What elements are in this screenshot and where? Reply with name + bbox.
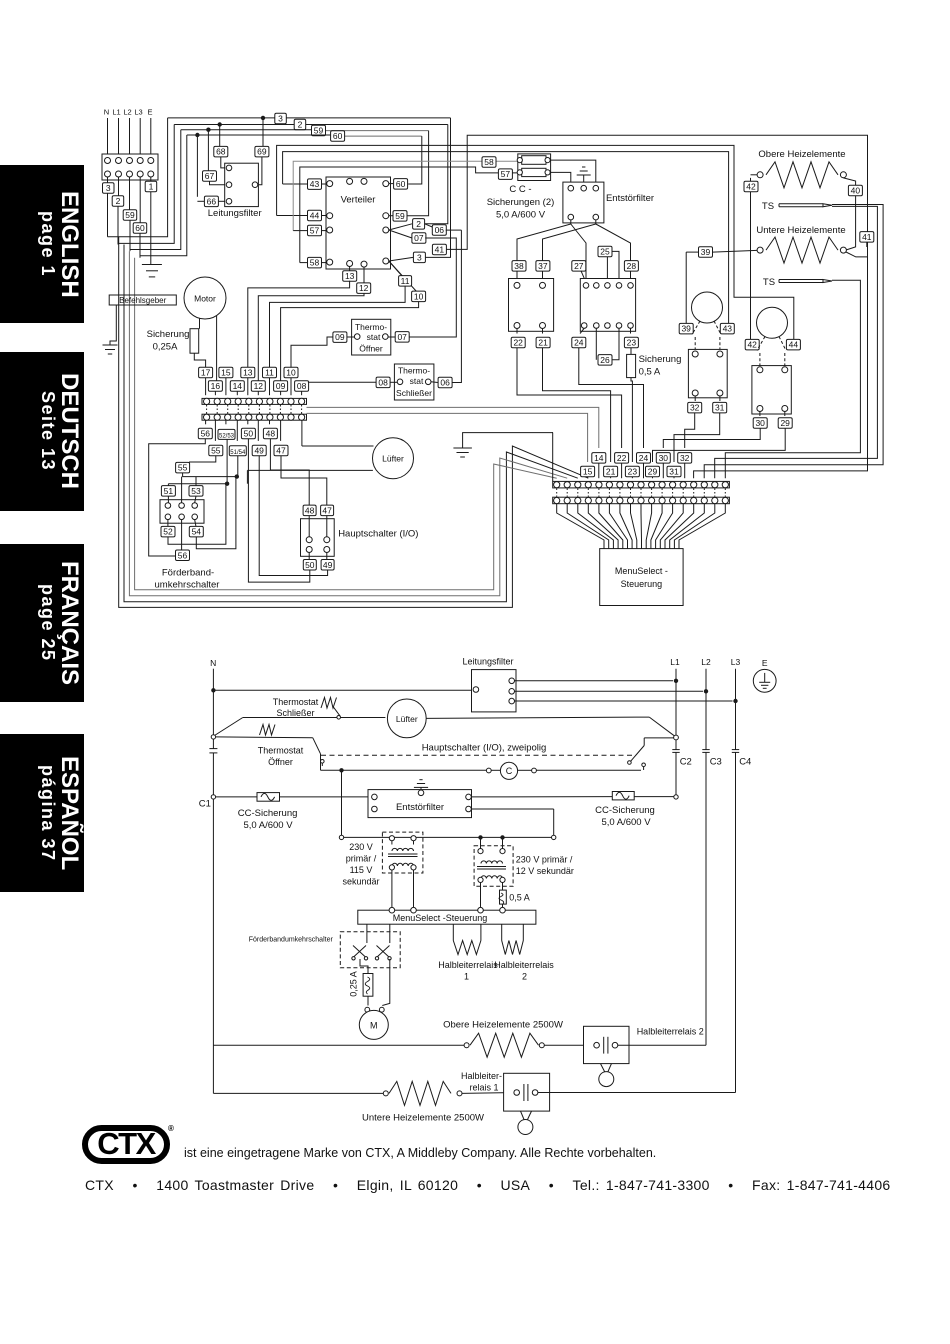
wire net07 to thermostat: [409, 238, 456, 337]
wire net43 bus: [283, 152, 729, 324]
CC fuse 1: [522, 156, 546, 165]
node 53 (box): [189, 486, 203, 497]
terminal block pins row 2: [105, 171, 111, 177]
svg-text:Obere Heizelemente: Obere Heizelemente: [758, 149, 845, 160]
terminal strip lower row 1: [553, 481, 730, 488]
address line: [85, 1177, 891, 1193]
relay REL2 pins: [757, 367, 763, 373]
svg-text:Untere Heizelemente: Untere Heizelemente: [756, 225, 845, 236]
svg-text:TS: TS: [763, 277, 775, 288]
svg-text:16: 16: [211, 381, 221, 391]
svg-text:59: 59: [125, 210, 135, 220]
node 11 strip (box): [263, 367, 277, 378]
wire net60 left loop: [139, 233, 141, 257]
wire fuse to strip 23: [631, 378, 632, 462]
svg-text:07: 07: [397, 332, 407, 342]
svg-text:1: 1: [464, 972, 469, 982]
node 52/53 (box): [218, 429, 235, 439]
thermostat closer contact: [243, 717, 337, 719]
node 55 second (box): [176, 462, 190, 473]
svg-text:C1: C1: [199, 799, 211, 810]
wire net42 drop: [750, 178, 752, 181]
svg-text:Entstörfilter: Entstörfilter: [396, 802, 444, 813]
wire SSR1 to L3: [538, 1092, 736, 1094]
svg-text:15: 15: [583, 467, 593, 477]
relay REL1 dashed links: [692, 321, 700, 335]
terminal strip lower row 2: [553, 497, 730, 504]
svg-text:primär /: primär /: [346, 854, 377, 864]
wire strip row2 stubs down: [205, 420, 207, 424]
thermostat opener (Oeffner) box: [352, 319, 391, 355]
svg-text:Befehlsgeber: Befehlsgeber: [119, 296, 166, 305]
terminal block X1: [102, 154, 158, 180]
Verteiler pins right: [383, 213, 389, 219]
distributor (Verteiler) box: [326, 177, 391, 269]
wire net59 drop to Verteiler 59: [408, 131, 429, 216]
node 59 right (box): [389, 215, 393, 217]
fuse Sicherung 0,25A: [190, 329, 199, 354]
motor M1 circle: [184, 277, 226, 319]
node 3 (box): [107, 177, 109, 183]
svg-text:27: 27: [574, 261, 584, 271]
dashed switch coupling (Hauptschalter zweipolig): [321, 754, 635, 756]
wire 40 down to junction: [846, 196, 856, 250]
wire net2 jog to top bus: [118, 125, 174, 244]
Verteiler pins top: [347, 178, 353, 184]
node 38 (box): [512, 261, 526, 272]
svg-text:23: 23: [628, 467, 638, 477]
svg-text:51/54: 51/54: [230, 450, 246, 456]
motor M circle: [359, 1010, 388, 1039]
svg-text:55: 55: [178, 463, 188, 473]
ground above Entstoerfilter bottom: [420, 787, 422, 790]
svg-text:C C -: C C -: [509, 184, 531, 195]
wire node67 drop: [207, 130, 209, 171]
wire 69 to filter pin: [258, 157, 262, 185]
wire 51 to pin: [167, 496, 169, 503]
bus N vertical: [212, 669, 214, 749]
svg-text:relais 1: relais 1: [469, 1083, 498, 1093]
svg-text:21: 21: [606, 467, 616, 477]
logo CTX: [82, 1125, 170, 1164]
node 60 (box): [139, 177, 141, 223]
svg-text:30: 30: [755, 418, 765, 428]
node 07 (box): [412, 233, 426, 244]
svg-text:60: 60: [333, 131, 343, 141]
Entstoerfilter pins bottom: [568, 214, 574, 220]
svg-text:2: 2: [416, 219, 421, 229]
node 48 (box): [263, 428, 277, 439]
svg-text:25: 25: [600, 246, 610, 256]
svg-text:22: 22: [617, 453, 627, 463]
svg-text:Motor: Motor: [194, 294, 216, 304]
wire node68 drop: [219, 125, 221, 147]
node 32 relay (box): [694, 396, 696, 401]
wire 55 to middle pin: [181, 477, 183, 503]
node 21 bottom (box): [604, 466, 618, 477]
svg-text:Hauptschalter (I/O), zweipolig: Hauptschalter (I/O), zweipolig: [422, 743, 547, 754]
terminal strip upper dotted links: [206, 405, 208, 414]
svg-text:30: 30: [659, 453, 669, 463]
node 48 HS (box): [303, 505, 316, 515]
svg-text:21: 21: [538, 338, 548, 348]
node 68 (box): [214, 146, 228, 157]
svg-text:0,5 A: 0,5 A: [639, 367, 661, 378]
svg-text:39: 39: [681, 324, 691, 334]
contactor K2 box: [580, 279, 635, 332]
svg-text:0,5 A: 0,5 A: [509, 893, 530, 903]
thermostat opener contact: [216, 736, 313, 739]
svg-text:60: 60: [135, 223, 145, 233]
svg-text:49: 49: [254, 446, 264, 456]
node 41 top (box): [432, 244, 446, 255]
junction dot N to line filter: [211, 688, 215, 692]
node 3 right (box): [413, 252, 425, 263]
node 14 (box): [230, 381, 244, 392]
wire obere left stub: [751, 174, 758, 176]
wire net58 bus: [300, 167, 520, 263]
svg-text:09: 09: [276, 381, 286, 391]
wire T2 secondary to controller: [480, 883, 482, 908]
svg-text:Thermostat: Thermostat: [273, 697, 319, 707]
svg-text:Sicherung: Sicherung: [639, 354, 682, 365]
node 55 (box): [209, 445, 223, 456]
wire untere right junction: [846, 252, 868, 257]
node 23 (box): [630, 328, 632, 333]
contactor K2 pins bottom: [581, 323, 587, 329]
svg-text:29: 29: [780, 418, 790, 428]
svg-text:stat: stat: [410, 376, 424, 386]
wire 53 stub: [195, 477, 197, 486]
svg-text:56: 56: [201, 429, 211, 439]
solid state relay 1 box: [504, 1073, 550, 1111]
svg-text:1: 1: [149, 182, 154, 192]
svg-text:48: 48: [266, 429, 276, 439]
bus L2 vertical: [705, 669, 707, 750]
wire N to untere heater: [213, 1092, 383, 1094]
node 57 fuse (box): [498, 169, 512, 180]
capacitor C4: [732, 749, 739, 751]
svg-text:Förderbandumkehrschalter: Förderbandumkehrschalter: [249, 937, 334, 944]
node 56 (box): [198, 428, 212, 439]
wire filter to contactor K2 b: [596, 224, 631, 283]
wire 06 link: [425, 224, 433, 227]
svg-text:42: 42: [747, 340, 757, 350]
svg-text:14: 14: [594, 453, 604, 463]
transformer T2 dashed box: [474, 846, 513, 887]
node 39 relay (box): [679, 323, 693, 334]
svg-text:Lüfter: Lüfter: [382, 454, 404, 464]
node 13 strip (box): [241, 367, 255, 378]
svg-text:06: 06: [435, 225, 445, 235]
wire net59 jog to top bus: [130, 130, 181, 250]
ground above Entstoerfilter: [583, 175, 585, 185]
ground below Befehlsgeber: [110, 305, 116, 345]
svg-text:42: 42: [746, 181, 756, 191]
svg-text:Sicherungen (2): Sicherungen (2): [487, 197, 555, 208]
bus L1 vertical: [675, 669, 677, 750]
wire net31 to strip: [674, 413, 720, 462]
node 10 strip (box): [284, 367, 298, 378]
node 06 (box): [432, 225, 446, 236]
tab DEUTSCH Seite 13: [0, 352, 84, 511]
wire net3 left loop: [107, 193, 109, 237]
wire net13 to strip: [248, 281, 350, 368]
svg-text:11: 11: [265, 368, 274, 378]
node 30 relay (box): [759, 412, 761, 416]
svg-text:stat: stat: [367, 332, 381, 342]
wire net47 to hauptschalter: [281, 456, 327, 506]
node 22 bottom (box): [615, 453, 629, 464]
heater untere resistor: [757, 247, 763, 253]
contactor K1 pins bottom: [514, 323, 520, 329]
SSR1 contacts: [514, 1090, 520, 1096]
tab ESPANOL pagina 37: [0, 734, 84, 892]
thermostat closer (Schliesser) box: [394, 364, 434, 400]
svg-text:28: 28: [627, 261, 637, 271]
main switch pins: [306, 537, 312, 543]
svg-text:0,25A: 0,25A: [153, 342, 178, 353]
wire net12 to strip: [258, 293, 364, 381]
relay REL2 dashed links: [757, 337, 765, 351]
wire luefter top: [302, 445, 374, 447]
node 50 HS (box): [303, 560, 316, 571]
node 43 (box): [308, 179, 322, 190]
node 09 thermostat (box): [333, 332, 347, 343]
node 47 HS (box): [321, 505, 334, 515]
svg-text:Verteiler: Verteiler: [341, 195, 376, 206]
svg-text:66: 66: [207, 196, 217, 206]
wire luefter to L1 pole: [426, 717, 649, 718]
wire T1 secondary to controller: [391, 870, 393, 907]
wire net2 left loop: [117, 206, 119, 244]
svg-text:47: 47: [276, 446, 286, 456]
svg-text:L1: L1: [670, 657, 680, 667]
node 40 (box): [848, 185, 862, 196]
node 15 bottom (box): [581, 466, 595, 477]
wire switch to fuse 0,25A: [360, 959, 368, 974]
relay REL1 box: [688, 349, 727, 397]
main switch (Hauptschalter) box: [301, 519, 335, 557]
svg-text:50: 50: [305, 560, 315, 570]
svg-text:MenuSelect -: MenuSelect -: [615, 566, 668, 576]
node L1 junction circle: [674, 735, 679, 740]
node 56 second (box): [181, 520, 183, 551]
wire net3 jog to top bus: [108, 118, 168, 237]
capacitor C3: [702, 749, 709, 751]
node 59 top (box): [312, 125, 326, 136]
relay REL2 box: [752, 366, 791, 414]
wire obere right to 40: [843, 178, 855, 185]
wire fuse1 to filter: [550, 160, 596, 185]
svg-text:N: N: [104, 108, 109, 117]
node 58 (box): [308, 257, 322, 268]
solid state relay 2 box: [584, 1026, 630, 1063]
svg-text:3: 3: [106, 183, 111, 193]
ground mid (near Luefter): [463, 433, 553, 448]
svg-text:14: 14: [233, 381, 243, 391]
svg-text:Obere Heizelemente 2500W: Obere Heizelemente 2500W: [443, 1020, 563, 1031]
tab FRANCAIS page 25: [0, 544, 84, 702]
svg-text:32: 32: [680, 453, 690, 463]
conveyor switch contacts: [353, 946, 366, 958]
wire net30 to strip: [663, 428, 760, 448]
node 06 thermostat (box): [431, 381, 438, 384]
node 60 right (box): [389, 183, 393, 185]
wire 67 to filter pin: [210, 181, 227, 185]
wire top bus net2: [174, 124, 294, 126]
svg-text:51: 51: [164, 486, 174, 496]
svg-text:12 V sekundär: 12 V sekundär: [516, 866, 574, 876]
wire motor to net16: [216, 316, 218, 381]
relay REL2 coil circle: [757, 307, 788, 338]
node 44 (box): [308, 210, 322, 221]
svg-text:44: 44: [789, 340, 799, 350]
svg-text:5,0 A/600 V: 5,0 A/600 V: [243, 820, 293, 831]
wire net60 drop to Verteiler 60: [408, 136, 422, 184]
svg-text:12: 12: [254, 381, 264, 391]
interference filter bottom (Entstoerfilter) box: [368, 790, 472, 818]
node 17 (box): [199, 367, 213, 378]
node C1 circle: [211, 795, 215, 799]
wire top bus net59: [181, 129, 312, 131]
heater obere bottom: [464, 1043, 469, 1048]
fuse 0,5A: [502, 883, 504, 891]
wire switch2 to motor M: [382, 959, 390, 1006]
interference filter (Entstoerfilter) box: [563, 182, 604, 223]
thermostat opener pins: [354, 334, 360, 340]
node 44 relay (box): [786, 339, 800, 350]
capacitor symbol on N line: [209, 748, 217, 750]
svg-text:CC-Sicherung: CC-Sicherung: [238, 808, 298, 819]
svg-text:Halbleiterrelais: Halbleiterrelais: [494, 960, 554, 970]
svg-text:57: 57: [310, 226, 320, 236]
node 67 (box): [203, 171, 217, 182]
node 30 bottom (box): [656, 453, 670, 464]
line filter pins: [226, 165, 232, 171]
CC fuse 2: [522, 168, 546, 176]
controller MenuSelect-Steuerung bottom box: [358, 910, 536, 924]
svg-text:69: 69: [257, 147, 267, 157]
node 23 bottom (box): [625, 466, 639, 477]
svg-text:54: 54: [192, 527, 202, 537]
svg-text:Öffner: Öffner: [359, 344, 383, 354]
wire net09 to thermostat oeffner: [291, 337, 333, 368]
node 24 bottom (box): [637, 453, 651, 464]
wire control line with C motor: [321, 769, 487, 771]
SSR2 coil circle: [601, 1064, 605, 1072]
wire motor to fuse: [199, 318, 201, 328]
svg-text:Thermo-: Thermo-: [355, 322, 387, 332]
wire controller to conveyor switch: [366, 924, 368, 943]
switch blade right pole upper: [649, 717, 675, 736]
svg-text:07: 07: [414, 233, 424, 243]
thermostat closer pins: [397, 379, 403, 385]
svg-text:48: 48: [305, 505, 315, 515]
wire strip label stubs to row1: [205, 378, 207, 395]
svg-text:52: 52: [163, 527, 173, 537]
svg-text:43: 43: [723, 324, 733, 334]
svg-text:L3: L3: [134, 108, 142, 117]
transformer T1: [389, 836, 394, 841]
wire 52 jog: [168, 484, 226, 545]
svg-text:2: 2: [522, 972, 527, 982]
wire net49 loop: [259, 456, 327, 576]
svg-text:Halbleiterrelais 2: Halbleiterrelais 2: [637, 1027, 704, 1037]
svg-text:57: 57: [501, 169, 511, 179]
wire top bus net3: [168, 117, 275, 119]
controller top pins: [389, 907, 395, 913]
node 2 right (box): [413, 219, 425, 230]
wire controller to SSR coil 1: [452, 924, 454, 940]
wire net24 to strip: [579, 348, 644, 448]
wire 54 jog: [196, 477, 236, 549]
svg-text:CC-Sicherung: CC-Sicherung: [595, 805, 655, 816]
node 15 (box): [219, 367, 233, 378]
svg-text:Förderband-: Förderband-: [162, 568, 214, 579]
wire top bus net60: [187, 134, 331, 136]
switch blade right pole lower: [628, 761, 632, 765]
svg-text:Thermo-: Thermo-: [398, 366, 430, 376]
wire fan-in to MenuSelect controller: [557, 504, 604, 549]
svg-text:31: 31: [669, 467, 679, 477]
wire 53 to pin: [195, 496, 196, 503]
svg-text:11: 11: [401, 276, 410, 286]
node 07 thermostat (box): [388, 336, 395, 338]
svg-text:L1: L1: [112, 108, 120, 117]
wire net32 to strip: [685, 413, 695, 448]
node 2 top (box): [294, 119, 306, 130]
wire net60 jog to top bus: [140, 135, 187, 256]
svg-text:37: 37: [538, 261, 548, 271]
svg-text:10: 10: [286, 368, 296, 378]
earth symbol E: [753, 669, 776, 692]
wire 66 to filter: [197, 200, 204, 202]
node 29 relay (box): [784, 412, 786, 416]
svg-text:32: 32: [690, 403, 700, 413]
svg-text:L3: L3: [731, 657, 741, 667]
svg-text:E: E: [762, 658, 768, 668]
svg-text:M: M: [370, 1021, 378, 1031]
svg-text:58: 58: [310, 258, 320, 268]
line filter bottom pins: [473, 687, 479, 693]
terminal strip lower dotted links: [556, 489, 558, 497]
CC fuse pins: [517, 158, 522, 163]
node 47 (box): [274, 445, 288, 456]
node 52 (box): [167, 520, 169, 527]
node 43 relay (box): [720, 323, 734, 334]
wire net44 bus: [277, 145, 794, 339]
svg-text:C4: C4: [739, 757, 751, 768]
svg-text:50: 50: [244, 429, 254, 439]
node 51/54 (box): [229, 446, 246, 456]
SSR2 contacts: [594, 1042, 600, 1048]
svg-text:Schließer: Schließer: [396, 388, 432, 398]
Entstoerfilter pins top: [568, 185, 574, 191]
svg-text:sekundär: sekundär: [342, 877, 379, 887]
node 51 (box): [167, 484, 169, 486]
wire 51 line: [168, 483, 227, 485]
node 57 (box): [308, 225, 322, 236]
fan (Luefter) circle: [373, 438, 414, 479]
node 31 relay (box): [719, 396, 721, 401]
node 49 (box): [252, 445, 266, 456]
node 22 (box): [516, 329, 518, 334]
wire net06 to thermostat: [452, 230, 461, 382]
svg-text:08: 08: [378, 377, 388, 387]
wire net22 to strip: [517, 348, 622, 448]
node 60 top (box): [331, 131, 345, 142]
